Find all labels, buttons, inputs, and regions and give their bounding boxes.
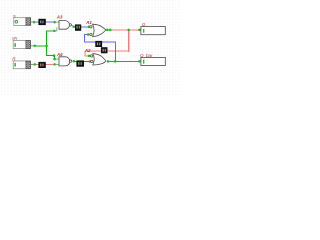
svg-text:A4: A4 bbox=[56, 52, 63, 57]
wire blue feedback vertical up from Qbar row bbox=[115, 41, 116, 62]
node A1.in2 bbox=[87, 33, 90, 36]
node A3.in1 bbox=[53, 21, 56, 24]
node A2.in1 bbox=[88, 55, 91, 58]
value box on R wire bbox=[38, 62, 45, 68]
svg-text:A2: A2 bbox=[84, 48, 91, 53]
value box on A3-A1 wire bbox=[75, 24, 81, 30]
value box on S wire bbox=[38, 19, 45, 25]
wire A4 output to A2 input green bbox=[74, 61, 90, 62]
node A1 output bbox=[106, 29, 109, 32]
gate A2 (NAND, DeMorgan OR form) bbox=[84, 48, 109, 65]
node A4.in1 feed bbox=[53, 54, 56, 57]
input pin R bbox=[12, 56, 36, 68]
wire EN green horizontal bbox=[36, 45, 47, 46]
node A1.in1 bbox=[88, 26, 91, 29]
node A4.in2 bbox=[53, 63, 56, 66]
wire blue feedback horizontal bbox=[84, 41, 116, 42]
output pin Q_bar bbox=[138, 53, 165, 65]
svg-text:A3: A3 bbox=[56, 14, 63, 19]
value box on A4-A2 wire bbox=[76, 60, 84, 66]
svg-text:A1: A1 bbox=[85, 20, 92, 25]
output pin Q bbox=[138, 22, 165, 35]
node Q row junction 2 bbox=[127, 29, 130, 32]
gate A3 (NAND) bbox=[54, 14, 75, 31]
svg-text:EN: EN bbox=[12, 36, 17, 40]
wire EN upper branch to A3.in2 bbox=[46, 30, 55, 31]
wire S blue from input S to gate A3 bbox=[36, 22, 55, 23]
wire Q row red segment to pin Q bbox=[129, 29, 139, 30]
wire red feedback horizontal to A2 bbox=[84, 51, 129, 52]
node Q row junction 1 bbox=[109, 29, 112, 32]
wire red feedback vertical from Q row bbox=[128, 29, 129, 51]
wire Qbar row blue from A2 output bbox=[108, 61, 139, 62]
wire A3 output to A1 input blue bbox=[74, 26, 89, 27]
node A3.in2 bbox=[53, 30, 56, 33]
wire EN vertical trunk bbox=[46, 30, 47, 55]
wire blue feedback vertical down to A1.in2 row bbox=[84, 34, 85, 42]
wire R red from input R to gate A4 bbox=[36, 64, 55, 65]
value box on blue feedback wire bbox=[95, 41, 102, 47]
input pin S bbox=[13, 14, 36, 26]
wire Q row green segment at A1 output bbox=[107, 29, 110, 30]
node A2.in2 bbox=[89, 60, 92, 63]
wire blue stub into A1.in2 bbox=[84, 34, 88, 35]
node A4.in1 vertical stub bbox=[54, 55, 55, 59]
gate A1 (NAND, DeMorgan OR form) bbox=[85, 20, 108, 37]
input pin EN bbox=[12, 36, 36, 48]
node A4.in1 bbox=[53, 58, 56, 61]
value box on red feedback wire bbox=[101, 47, 108, 53]
node Qbar row junction bbox=[114, 60, 117, 63]
wire Q row red middle segment bbox=[110, 29, 128, 30]
wire red stub into A2.in1 bbox=[84, 55, 88, 56]
node EN junction bbox=[45, 45, 48, 48]
wire red feedback down-jog at A2 bbox=[84, 51, 85, 56]
wire EN lower branch to A4.in1 bbox=[46, 55, 55, 56]
gate A4 (NAND) bbox=[55, 52, 75, 66]
node A2 output bbox=[107, 60, 110, 63]
